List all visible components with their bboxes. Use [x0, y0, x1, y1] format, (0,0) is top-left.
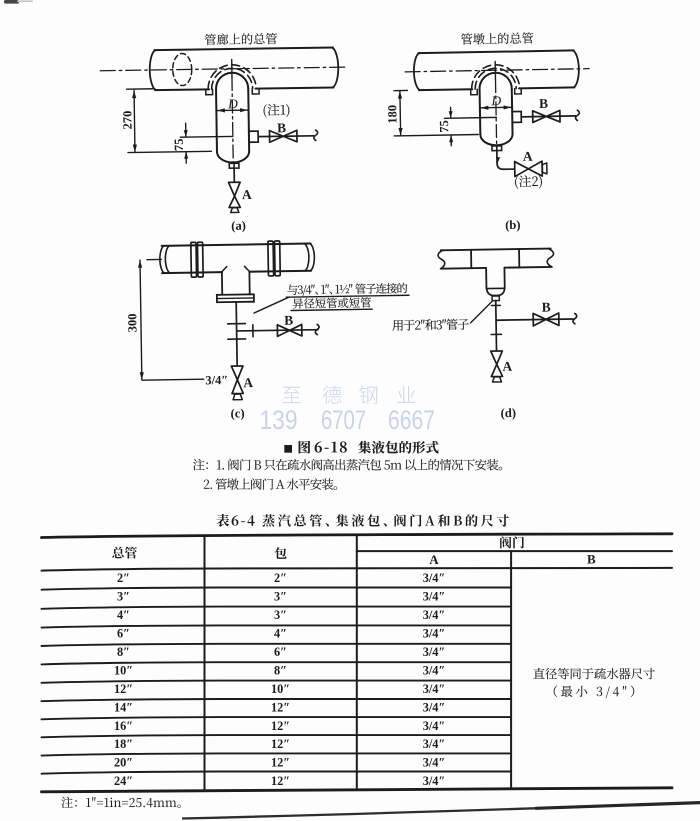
valve B (c) [277, 324, 302, 336]
dashed reinforcement arc inner (a) [211, 68, 252, 89]
pipe right end break (d) [547, 249, 554, 267]
table row line 3 [42, 625, 512, 627]
svg-text:D: D [227, 96, 238, 111]
svg-text:B: B [542, 299, 551, 314]
pipe break hook (c) [315, 324, 319, 334]
svg-text:A: A [429, 552, 439, 567]
pipe centerline (b) [405, 69, 589, 72]
table column divider 2 [356, 535, 358, 789]
svg-text:3/4″: 3/4″ [423, 590, 446, 604]
svg-text:B: B [284, 313, 293, 328]
svg-text:75: 75 [172, 138, 186, 151]
dashed reinforcement arc inner (b) [475, 68, 516, 89]
header pipe (c) bottom wall [162, 271, 311, 273]
union tick on branch (c) [252, 325, 254, 337]
table footnote [61, 797, 180, 808]
table row line 7 [42, 699, 512, 701]
branch weld line (d) [486, 287, 504, 289]
drain pipe (c) [236, 302, 237, 366]
svg-text:10″: 10″ [271, 682, 290, 696]
table column divider A|B [510, 551, 512, 789]
dimension 270 line (a) [133, 90, 136, 152]
svg-text:3″: 3″ [274, 590, 287, 604]
table row line 2 [42, 607, 512, 609]
branch pipe to valve B (c) [237, 330, 318, 331]
table B cell line 2 [554, 685, 635, 698]
vessel shell walls (a) [216, 89, 249, 152]
figure caption 集液包的形式 [358, 441, 438, 454]
table B cell line 1 [533, 668, 655, 680]
svg-text:(a): (a) [231, 219, 246, 233]
note ref (注1) [263, 104, 289, 118]
note line 2 [204, 478, 337, 489]
valve B (d) [533, 313, 559, 326]
table row line 10 [42, 753, 512, 755]
dimension 75 line (a) [185, 123, 188, 163]
weld foot left (a) [206, 89, 213, 94]
svg-text:12″: 12″ [114, 682, 133, 696]
valve A (a) [229, 182, 241, 207]
svg-text:D: D [490, 93, 501, 108]
svg-text:24″: 24″ [114, 774, 133, 788]
extension stub at centerline (c) [147, 258, 161, 260]
pipe left end break arcs (c) [160, 246, 170, 273]
extension line top (b) [394, 89, 407, 91]
header pipe (b) top wall [418, 50, 573, 53]
pipe left end cap (a) [149, 50, 156, 90]
vessel vertical centerline (a) [231, 59, 233, 77]
weld prep notches (c) [222, 266, 250, 272]
figure (b) title 管墩上的总管 [461, 32, 533, 45]
extension line top (a) [127, 88, 154, 90]
pipe break hook (d) [573, 313, 577, 323]
valve A (c) [231, 366, 243, 394]
pipe centerline (a) [100, 67, 346, 71]
header pipe (a) top wall [154, 47, 332, 50]
svg-text:3/4″: 3/4″ [205, 373, 228, 387]
figure (c) : welded tee drip leg, large pipe [138, 239, 411, 401]
pipe right end cap (a) [332, 47, 339, 87]
svg-text:A: A [502, 359, 512, 374]
nozzle to valve B (b) [512, 111, 521, 122]
pipe to valve B (a) [258, 135, 313, 138]
svg-text:18″: 18″ [114, 737, 133, 751]
bottom flange (a) [229, 163, 239, 168]
tee branch walls (c) [222, 272, 250, 295]
svg-text:3/4″: 3/4″ [423, 737, 446, 751]
reducer cap (d) [487, 288, 505, 295]
union tick 2 (d) [491, 333, 501, 335]
union tick 1 (d) [491, 304, 500, 306]
svg-text:B: B [277, 120, 286, 135]
vessel vertical centerline (b) [494, 61, 496, 79]
dimension D arrows (a) [216, 109, 248, 111]
drain spout (c) [233, 394, 242, 400]
header pipe (d) top wall [441, 249, 551, 251]
callout underline 2 (c) [291, 309, 372, 310]
table bottom border [42, 788, 673, 792]
scan artifact bottom page-edge sweep [182, 803, 700, 819]
vessel bottom head (a) [217, 151, 249, 162]
svg-text:139: 139 [260, 405, 298, 435]
drain stem (a) [233, 168, 235, 182]
dimension 300 line (c) [140, 260, 142, 380]
pipe left end cap (b) [414, 53, 420, 90]
svg-text:16″: 16″ [114, 719, 133, 733]
header pipe (c) top wall [162, 243, 311, 245]
note line 1 [193, 459, 502, 471]
table row line 4 [42, 644, 512, 646]
svg-text:8″: 8″ [117, 645, 130, 659]
svg-text:12″: 12″ [271, 737, 290, 751]
vessel bottom head (b) [480, 134, 512, 146]
svg-text:3/4″: 3/4″ [423, 774, 446, 788]
svg-text:3/4″: 3/4″ [423, 700, 446, 714]
weld foot left (b) [471, 89, 478, 94]
pipe break hook (a) [314, 130, 318, 140]
pipe right end break arcs (c) [304, 243, 314, 270]
table row line 5 [42, 662, 512, 664]
small fitting (d) [492, 296, 499, 301]
dimension 75 line (b) [450, 107, 453, 145]
extension line bottom (b) [394, 134, 478, 135]
drain pipe (d) [495, 301, 498, 351]
figure caption 图6-18 [299, 441, 311, 454]
pipe left end break (d) [438, 250, 445, 269]
svg-text:3/4″: 3/4″ [423, 663, 446, 677]
dashed reinforcement arc outer (a) [208, 64, 256, 89]
header pipe (a) bottom wall [155, 87, 333, 90]
extension line 75 (b) [444, 116, 496, 119]
nozzle to valve B (a) [249, 131, 258, 142]
flange collar pair right (c) [268, 241, 274, 276]
svg-text:3/4″: 3/4″ [423, 571, 446, 585]
svg-text:180: 180 [385, 105, 399, 124]
union tick 2 (c) [228, 338, 246, 340]
drip-leg dome (a) [216, 72, 248, 89]
svg-text:75: 75 [437, 120, 451, 133]
svg-text:3/4″: 3/4″ [423, 608, 446, 622]
vessel shell walls (b) [480, 89, 513, 135]
header pipe (d) bottom wall [441, 267, 551, 269]
flow arrow on elbow (b) [495, 157, 500, 164]
table row line 6 [42, 681, 512, 683]
table header 总管 [112, 547, 137, 559]
extension line bottom (a) [128, 151, 211, 152]
figure (d) : tee drip leg for small pipe [438, 248, 578, 383]
valve B (a) [269, 130, 297, 142]
dimension 180 line (b) [399, 91, 402, 136]
valve A (b) [515, 161, 543, 176]
svg-text:6667: 6667 [388, 405, 435, 435]
extension line 75 (a) [180, 135, 233, 138]
svg-text:8″: 8″ [274, 663, 287, 677]
weld foot right (b) [515, 89, 522, 94]
table row line 9 [42, 735, 512, 737]
drain elbow (b) [497, 150, 515, 169]
valve A (d) [491, 351, 503, 377]
drain spout (b) [542, 163, 547, 174]
union tick 1 (c) [228, 323, 246, 325]
bottom flange (b) [492, 146, 502, 151]
scan artifact top-left mark [4, 0, 19, 4]
svg-text:12″: 12″ [271, 756, 290, 770]
callout line2 (c) [293, 297, 371, 309]
table row line 11 [42, 772, 512, 774]
table top border [42, 534, 673, 538]
extension line to 3/4in text (c) [142, 378, 203, 381]
svg-text:3/4″: 3/4″ [423, 756, 446, 770]
svg-text:4″: 4″ [117, 608, 130, 622]
table column divider 1 [204, 535, 206, 789]
table header 包 [275, 547, 287, 559]
drain spout (a) [231, 208, 239, 213]
drip-leg dome (b) [479, 72, 511, 89]
figure (b) : drip leg on sleeper header [393, 50, 591, 179]
header pipe (b) bottom wall [419, 87, 574, 90]
figure caption marker square [284, 445, 292, 453]
svg-text:3″: 3″ [117, 590, 130, 604]
figure (a) title 管廊上的总管 [205, 33, 277, 45]
table row line 8 [42, 717, 512, 719]
svg-text:3/4″: 3/4″ [423, 719, 446, 733]
svg-text:6″: 6″ [274, 645, 287, 659]
table header bottom line [42, 568, 673, 571]
svg-text:3/4″: 3/4″ [423, 645, 446, 659]
svg-text:A: A [242, 187, 252, 202]
callout leader line (c) [254, 297, 289, 313]
callout line1 (c) [287, 284, 352, 297]
table header 阀门 [500, 536, 524, 548]
svg-text:3/4″: 3/4″ [423, 682, 446, 696]
pipe right end cap (b) [573, 50, 579, 87]
svg-text:12″: 12″ [271, 719, 290, 733]
svg-text:B: B [587, 551, 596, 566]
svg-text:10″: 10″ [114, 663, 133, 677]
callout leader line (d) [470, 301, 492, 322]
pipe break hook (b) [575, 110, 579, 120]
svg-text:A: A [523, 149, 533, 164]
table row line 1 [42, 588, 512, 590]
svg-text:14″: 14″ [114, 700, 133, 714]
callout underline 1 (c) [286, 295, 409, 297]
svg-text:12″: 12″ [271, 774, 290, 788]
svg-text:B: B [539, 96, 548, 111]
flange collar pair left (c) [191, 242, 197, 277]
svg-text:4″: 4″ [274, 627, 287, 641]
svg-text:(b): (b) [505, 218, 521, 232]
svg-text:20″: 20″ [114, 756, 133, 770]
svg-text:6707: 6707 [321, 405, 366, 435]
valve B (b) [533, 110, 560, 122]
dashed bore ellipse (a) [173, 53, 192, 85]
svg-text:300: 300 [125, 314, 139, 333]
table valve header underline [357, 550, 672, 552]
svg-text:2″: 2″ [274, 571, 287, 585]
note ref (注2) [515, 175, 542, 189]
branch pipe to valve B (d) [496, 319, 573, 320]
weld foot right (a) [252, 89, 259, 94]
dashed reinforcement arc outer (b) [471, 64, 519, 89]
drain spout (d) [492, 377, 501, 382]
dimension D arrows (b) [480, 106, 512, 109]
svg-text:3″: 3″ [274, 608, 287, 622]
pipe to valve B (b) [521, 115, 575, 118]
watermark 至德钢业 [283, 387, 301, 403]
svg-text:6″: 6″ [117, 627, 130, 641]
svg-text:(d): (d) [500, 406, 516, 420]
table title [216, 514, 254, 527]
tee body joints (d) [471, 249, 519, 268]
tee branch walls (d) [486, 268, 505, 289]
figure (a) : drip leg on pipe-rack header [100, 47, 348, 214]
branch flange plate (c) [217, 294, 254, 302]
svg-text:270: 270 [120, 111, 134, 130]
svg-text:2″: 2″ [117, 571, 130, 585]
svg-text:(c): (c) [231, 406, 245, 420]
table title text [262, 514, 509, 527]
svg-text:A: A [243, 375, 253, 390]
callout 用于2″和3″管子 (d) [392, 318, 469, 330]
svg-text:12″: 12″ [271, 700, 290, 714]
svg-text:3/4″: 3/4″ [423, 627, 446, 641]
